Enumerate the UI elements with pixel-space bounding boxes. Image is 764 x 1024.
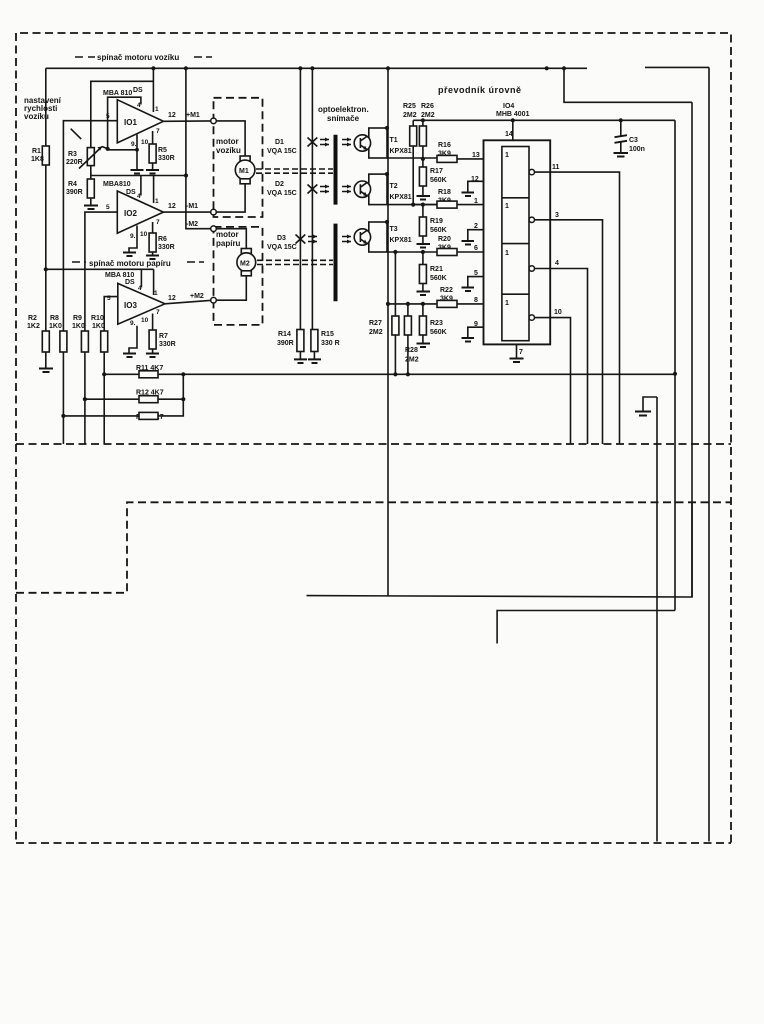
svg-text:R21: R21 [430,266,443,273]
svg-text:MBA810: MBA810 [103,181,131,188]
wire: +12V rail vertical [691,102,693,597]
wire IO3 pin10 stub to ground [129,326,137,353]
LED arrows D2 [320,187,329,192]
wire D collector rail [387,68,389,595]
resistor R4 390R [90,166,92,179]
wire T3 emitter row to R20 [387,251,437,253]
resistor R10 1K0 (C net) [104,297,118,331]
svg-text:12: 12 [168,295,176,302]
svg-text:MBA 810: MBA 810 [103,90,132,97]
wire IO1 pin10 stub to ground [136,135,138,170]
resistor R8 1K0 (A net) [60,331,67,352]
svg-text:12: 12 [168,112,176,119]
svg-text:spínač motoru vozíku: spínač motoru vozíku [97,53,179,62]
svg-text:T1: T1 [390,137,398,144]
svg-text:3: 3 [555,212,559,219]
bottom dashed line (Deska konektoru bottom) [16,842,731,844]
svg-text:KPX81: KPX81 [390,194,412,201]
svg-text:11: 11 [552,164,560,171]
svg-text:390R: 390R [66,189,83,196]
svg-text:C3: C3 [629,137,638,144]
svg-text:9.: 9. [130,233,136,240]
svg-text:M2: M2 [240,261,250,268]
svg-text:+M1: +M1 [186,112,200,119]
motor M1 [216,121,245,156]
svg-text:R3: R3 [68,151,77,158]
svg-text:8: 8 [474,297,478,304]
wire T1 emitter row to R16 [387,157,437,159]
svg-text:R16: R16 [438,142,451,149]
dashed boundary snake around IN connector (konektor board top) [16,502,731,593]
svg-text:R2: R2 [28,315,37,322]
svg-text:100n: 100n [629,146,645,153]
wire T2 emitter row to R18 [387,204,437,206]
wire: GND rail vertical [656,397,658,842]
svg-text:M1: M1 [239,168,249,175]
node dots on top rail [151,66,155,70]
svg-text:7: 7 [156,219,160,226]
resistor R7 330R [152,314,154,331]
terminal -M1 [211,209,217,215]
svg-text:motor: motor [216,137,239,146]
motor papiru dashed box [214,227,263,325]
svg-text:R14: R14 [278,331,291,338]
svg-text:10: 10 [554,309,562,316]
svg-text:R18: R18 [438,189,451,196]
svg-text:1: 1 [154,290,158,297]
resistor R21 560K [422,252,424,265]
svg-text:R27: R27 [369,320,382,327]
svg-text:DS: DS [125,279,135,286]
svg-text:330 R: 330 R [321,340,340,347]
svg-text:VQA 15C: VQA 15C [267,148,297,155]
terminal +M1 [211,118,217,124]
wire: +5V rail vertical [674,120,676,610]
svg-text:390R: 390R [277,340,294,347]
svg-text:1: 1 [505,203,509,210]
svg-text:7: 7 [156,309,160,316]
dashed divider line motor board bottom [16,443,731,445]
svg-text:R1: R1 [32,148,41,155]
svg-text:330R: 330R [159,341,176,348]
svg-text:-M1: -M1 [186,203,198,210]
wire: long +12V line to konektor board [307,502,693,598]
svg-text:1: 1 [505,152,509,159]
svg-text:R9: R9 [73,315,82,322]
motor M2 [216,229,246,249]
svg-text:R26: R26 [421,103,434,110]
wire IO2 pin5 input from B net [85,212,117,332]
svg-text:560K: 560K [430,275,447,282]
svg-text:560K: 560K [430,329,447,336]
svg-text:1: 1 [474,198,478,205]
svg-text:10: 10 [140,231,148,238]
wire R3 top to pin1 line [91,81,154,147]
trimmer R3 220R [87,148,94,166]
svg-text:VQA 15C: VQA 15C [267,244,297,251]
svg-text:IO4: IO4 [503,103,514,110]
wire IO1 pin4 feedback from R3 wiper [108,97,141,149]
resistor R1 1K8 [45,68,47,146]
svg-text:R7: R7 [159,333,168,340]
svg-text:MBA 810: MBA 810 [105,272,134,279]
outer dashed frame (Deska motoru board) [16,33,731,843]
svg-text:D3: D3 [277,235,286,242]
svg-text:R4: R4 [68,181,77,188]
svg-text:R6: R6 [158,236,167,243]
wire: B output of IO5 to +22V rail [645,66,709,68]
svg-text:D2: D2 [275,181,284,188]
svg-text:IO1: IO1 [124,118,137,127]
svg-text:+M2: +M2 [190,293,204,300]
svg-text:R17: R17 [430,168,443,175]
svg-text:motor: motor [216,230,239,239]
phototransistor T1 KPX81 [369,128,387,158]
wire D1/D2 LED chain vertical [311,68,313,330]
svg-text:1K0: 1K0 [72,323,85,330]
svg-text:R8: R8 [50,315,59,322]
svg-text:13: 13 [472,152,480,159]
svg-text:R19: R19 [430,218,443,225]
svg-text:R15: R15 [321,331,334,338]
svg-text:převodník úrovně: převodník úrovně [438,85,522,95]
svg-text:2M2: 2M2 [421,112,435,119]
svg-text:D1: D1 [275,139,284,146]
wire D3 LED chain vertical [299,68,301,330]
LED arrows D1 [320,140,329,145]
clona bar lower [334,224,338,302]
wire: +22V rail vertical [708,67,710,841]
svg-text:R23: R23 [430,320,443,327]
svg-text:1K0: 1K0 [49,323,62,330]
svg-text:spínač motoru papíru: spínač motoru papíru [89,259,171,268]
svg-text:DS: DS [133,87,143,94]
resistor R9 1K0 (B net) [81,331,88,352]
wire IO1 pin5 input from A net [63,121,117,332]
svg-text:MHB 4001: MHB 4001 [496,111,530,118]
svg-text:T2: T2 [390,183,398,190]
svg-text:1: 1 [155,198,159,205]
wire: +5V rail feed to IO7 input [497,611,675,644]
wire -M2 net from top rail [186,68,214,228]
resistor R14 390R [299,329,301,332]
wire IO2 pin10 stub to ground [129,226,137,253]
svg-text:KPX81: KPX81 [390,148,412,155]
resistor R5 330R [152,131,154,144]
svg-text:10: 10 [141,317,149,324]
LED arrows D3 [308,237,317,242]
svg-text:2M2: 2M2 [403,112,417,119]
svg-text:2M2: 2M2 [405,357,419,364]
wire: IO4 supply line to +5V rail [413,119,675,121]
mechanical link M1 to clona [256,169,333,173]
ground symbol top of GND rail [643,397,657,411]
phototransistor T3 KPX81 [369,222,387,252]
terminal -M2 [211,226,217,232]
svg-text:papíru: papíru [216,239,241,248]
svg-text:IO2: IO2 [124,209,137,218]
phototransistor T2 KPX81 [369,174,387,205]
svg-text:VQA 15C: VQA 15C [267,190,297,197]
svg-text:7: 7 [519,349,523,356]
wire R1/R2 node to IO3 pin4/pin1 [46,268,154,270]
wire: top +12V rail (E net) [46,67,587,69]
svg-text:snímače: snímače [327,114,360,123]
svg-text:4: 4 [555,260,559,267]
motor voziku dashed box [214,98,263,217]
svg-text:1K8: 1K8 [31,156,44,163]
wire IO1 pin1 to top rail [152,68,154,112]
svg-text:12: 12 [168,203,176,210]
svg-text:7: 7 [156,128,160,135]
wire -M1 output of IO2 [163,211,213,213]
svg-text:330R: 330R [158,244,175,251]
svg-text:9.: 9. [130,320,136,327]
svg-text:9.: 9. [131,141,137,148]
svg-text:220R: 220R [66,159,83,166]
mechanical link M2 to clona [257,260,333,264]
resistor R2 1K2 [45,269,47,331]
capacitor C3 100n [620,120,622,136]
svg-text:KPX81: KPX81 [390,237,412,244]
wire IO2 feedback line from R3/R4 junction [91,172,186,176]
resistor R23 560K [422,304,424,316]
svg-text:1: 1 [155,106,159,113]
IO4 gate output bubbles [529,169,534,174]
resistor R15 330R [311,330,318,352]
svg-text:10: 10 [141,139,149,146]
svg-text:R25: R25 [403,103,416,110]
svg-text:-M2: -M2 [186,221,198,228]
wire: +12V feed L-path from E-node down right [564,68,692,102]
wire sense rail to +5V rail [158,373,675,375]
svg-text:1: 1 [505,300,509,307]
svg-text:560K: 560K [430,177,447,184]
terminal +M2 [211,297,217,303]
svg-text:R10: R10 [91,315,104,322]
svg-text:R22: R22 [440,287,453,294]
svg-text:R28: R28 [405,347,418,354]
resistor R17 560K [422,159,424,167]
svg-text:R20: R20 [438,236,451,243]
wire +M1 output of IO1 [163,120,213,122]
svg-text:2M2: 2M2 [369,329,383,336]
svg-text:6: 6 [474,245,478,252]
svg-text:14: 14 [505,131,513,138]
resistor R19 560K [422,205,424,217]
svg-text:R5: R5 [158,147,167,154]
svg-text:560K: 560K [430,227,447,234]
svg-text:330R: 330R [158,155,175,162]
svg-text:T3: T3 [390,226,398,233]
svg-text:1K0: 1K0 [92,323,105,330]
resistor R6 330R [152,222,154,233]
svg-text:vozíku: vozíku [216,146,241,155]
svg-text:1K2: 1K2 [27,323,40,330]
clona bar upper [334,135,338,205]
svg-text:5: 5 [106,204,110,211]
wire +M2 output of IO3 [165,300,214,304]
svg-text:optoelektron.: optoelektron. [318,105,369,114]
svg-text:IO3: IO3 [124,301,137,310]
svg-text:1: 1 [505,250,509,257]
